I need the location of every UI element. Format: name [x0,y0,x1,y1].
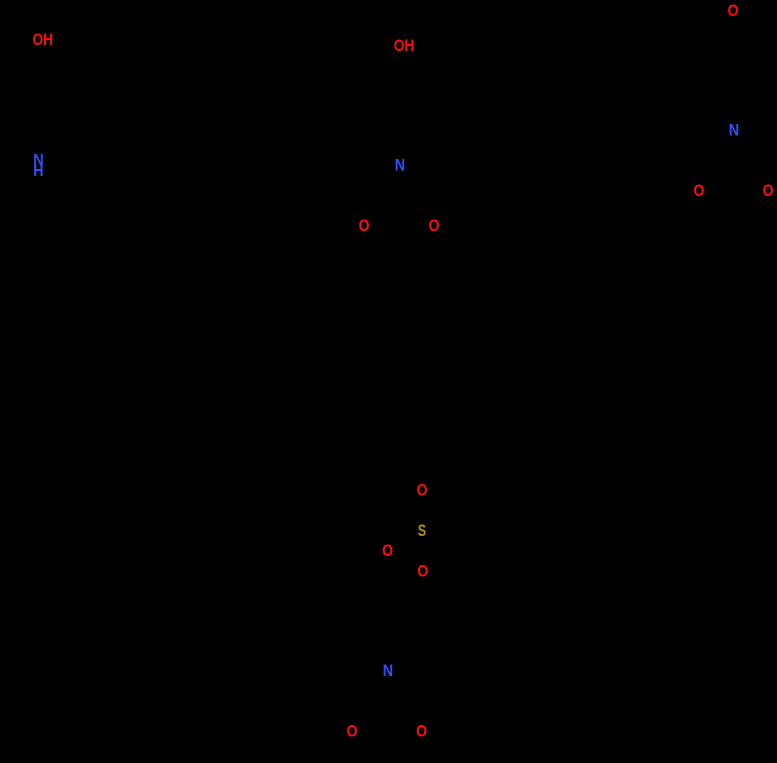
svg-text:O: O [694,182,705,200]
svg-text:O: O [416,722,427,740]
svg-text:O: O [417,482,428,500]
svg-text:N: N [395,156,405,174]
svg-text:O: O [763,182,774,200]
svg-text:O: O [359,217,370,235]
svg-text:OH: OH [33,31,54,49]
svg-text:H: H [33,162,43,180]
svg-text:O: O [728,2,739,20]
svg-text:O: O [429,217,440,235]
svg-text:O: O [417,563,428,581]
svg-text:O: O [347,722,358,740]
svg-text:S: S [418,522,426,540]
svg-text:OH: OH [394,37,415,55]
svg-text:N: N [729,121,739,139]
svg-text:N: N [383,662,393,680]
svg-text:O: O [382,542,393,560]
